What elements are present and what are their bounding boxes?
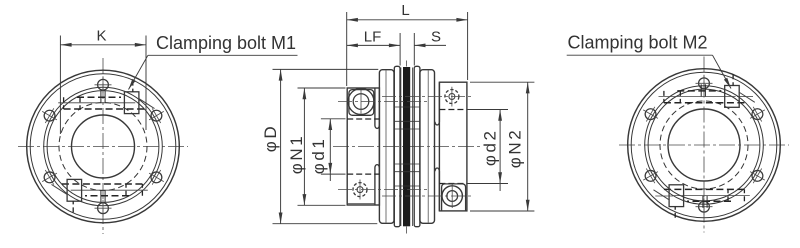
svg-text:φD: φD (261, 124, 280, 153)
far side bolt lower-left axis line (338, 189, 430, 191)
L extension line right (467, 12, 469, 80)
svg-text:S: S (431, 29, 441, 46)
hub 1 chamfer line (347, 203, 375, 205)
svg-text:φN1: φN1 (287, 134, 306, 175)
hub 1 hidden bore line bottom (347, 173, 379, 175)
left clamp detail top (58, 81, 154, 114)
hub 1 body (347, 88, 379, 205)
hub 2 hidden bore line top (439, 109, 467, 111)
clamp bolt M2 socket circle (447, 191, 458, 202)
phid2 extension line bottom (467, 183, 509, 185)
clamp bolt M1 axis line (338, 101, 430, 103)
phiN1 dimension line (303, 88, 305, 205)
left clamp detail bottom (52, 179, 148, 212)
spacer plate left (394, 66, 400, 226)
S extension line right (413, 33, 415, 66)
svg-text:Clamping bolt M2: Clamping bolt M2 (568, 33, 708, 53)
phiN1 extension line bottom (298, 204, 346, 206)
phiN2 extension line bottom (470, 210, 534, 212)
disc pack bushing line 3 (394, 128, 420, 130)
flange 1 groove line (385, 71, 387, 223)
far side bolt lower-left vertical hair (359, 180, 361, 200)
right clamp detail bottom (654, 185, 750, 218)
M2 leader underline (567, 54, 713, 56)
disc pack bushing line 5 (394, 171, 420, 173)
phiN1 extension line top (298, 87, 346, 89)
phid2 extension line top (467, 109, 509, 111)
phiD dimension line (280, 69, 282, 223)
phid1 dimension tail (329, 174, 331, 181)
far side bolt upper-right vertical hair (451, 87, 453, 107)
far side bolt upper-right circle (dashed) (445, 90, 459, 104)
disc guard line right (412, 68, 414, 227)
flange 2 groove line (427, 71, 429, 223)
clamp bolt M1 pocket (349, 90, 374, 116)
hub 1 hidden bore line top (347, 118, 379, 120)
K dimension line (60, 44, 146, 46)
clamp bolt M1 socket circle (353, 94, 369, 110)
LF dimension line (347, 44, 400, 46)
svg-text:K: K (96, 27, 106, 44)
K extension line right (145, 36, 147, 131)
flange 2 plate (420, 70, 435, 224)
svg-text:LF: LF (364, 29, 382, 46)
hub 2 body (439, 82, 467, 211)
flange 1 plate (379, 70, 394, 224)
K extension line left (59, 36, 61, 135)
phiN2 dimension line (527, 82, 529, 211)
M1 leader underline (148, 54, 298, 56)
clamp bolt M2 vertical hair (451, 184, 453, 208)
disc pack (403, 67, 410, 226)
S dimension arrow line (414, 44, 446, 46)
disc pack bushing line 6 (394, 185, 420, 187)
hub 1 slot top (375, 88, 379, 128)
hub 2 slot top (435, 82, 439, 125)
far side bolt lower-left inner circle (357, 187, 363, 193)
phid1 extension line top (321, 118, 346, 120)
phiD extension line top (273, 68, 379, 70)
right clamp detail top (659, 74, 755, 107)
spacer plate right (414, 66, 420, 226)
disc pack bushing line 4 (394, 163, 420, 165)
clamp bolt M2 axis line (382, 195, 472, 197)
far side bolt upper-right axis line (382, 96, 472, 98)
phid1 dimension line (329, 119, 331, 174)
M1 leader arrow (129, 55, 148, 89)
far side bolt lower-left circle (dashed) (353, 183, 367, 197)
left bore circle d1 (72, 115, 135, 178)
disc center nub bottom (406, 227, 408, 234)
phid2 dimension tail (499, 184, 501, 192)
disc pack bushing line 1 (394, 106, 420, 108)
clamp bolt M1 vertical hair (360, 90, 362, 114)
side view center line (333, 146, 480, 148)
right bore circle d2 (668, 109, 740, 181)
svg-text:Clamping bolt M1: Clamping bolt M1 (156, 33, 296, 53)
hub 1 slot bottom (375, 165, 379, 205)
svg-text:φd2: φd2 (481, 128, 500, 166)
S extension line left (399, 33, 401, 66)
far side bolt upper-right inner circle (449, 94, 455, 100)
clamp bolt M1 head circle (348, 89, 374, 115)
L extension line left (346, 12, 348, 86)
clamp bolt M2 pocket (442, 184, 466, 211)
disc pack bushing line 2 (394, 120, 420, 122)
disc guard line left (400, 68, 402, 227)
phid1 extension line bottom (321, 173, 346, 175)
phid2 dimension line (499, 110, 501, 184)
L dimension line (347, 19, 468, 21)
right hub front view (619, 57, 789, 233)
disc center nub top (406, 61, 408, 67)
right chord extension top (737, 96, 753, 98)
svg-text:L: L (401, 2, 409, 19)
svg-text:φN2: φN2 (505, 128, 524, 169)
M2 leader arrow (713, 55, 732, 88)
svg-text:φd1: φd1 (309, 137, 328, 175)
hub 2 hidden bore line bottom (439, 183, 467, 185)
phiD extension line bottom (273, 223, 378, 225)
right chord extension bottom (655, 195, 673, 197)
left hub front view (18, 58, 188, 234)
clamp bolt M2 head circle (442, 186, 462, 206)
phiN2 extension line top (470, 81, 534, 83)
hub 2 slot bottom (435, 168, 439, 211)
